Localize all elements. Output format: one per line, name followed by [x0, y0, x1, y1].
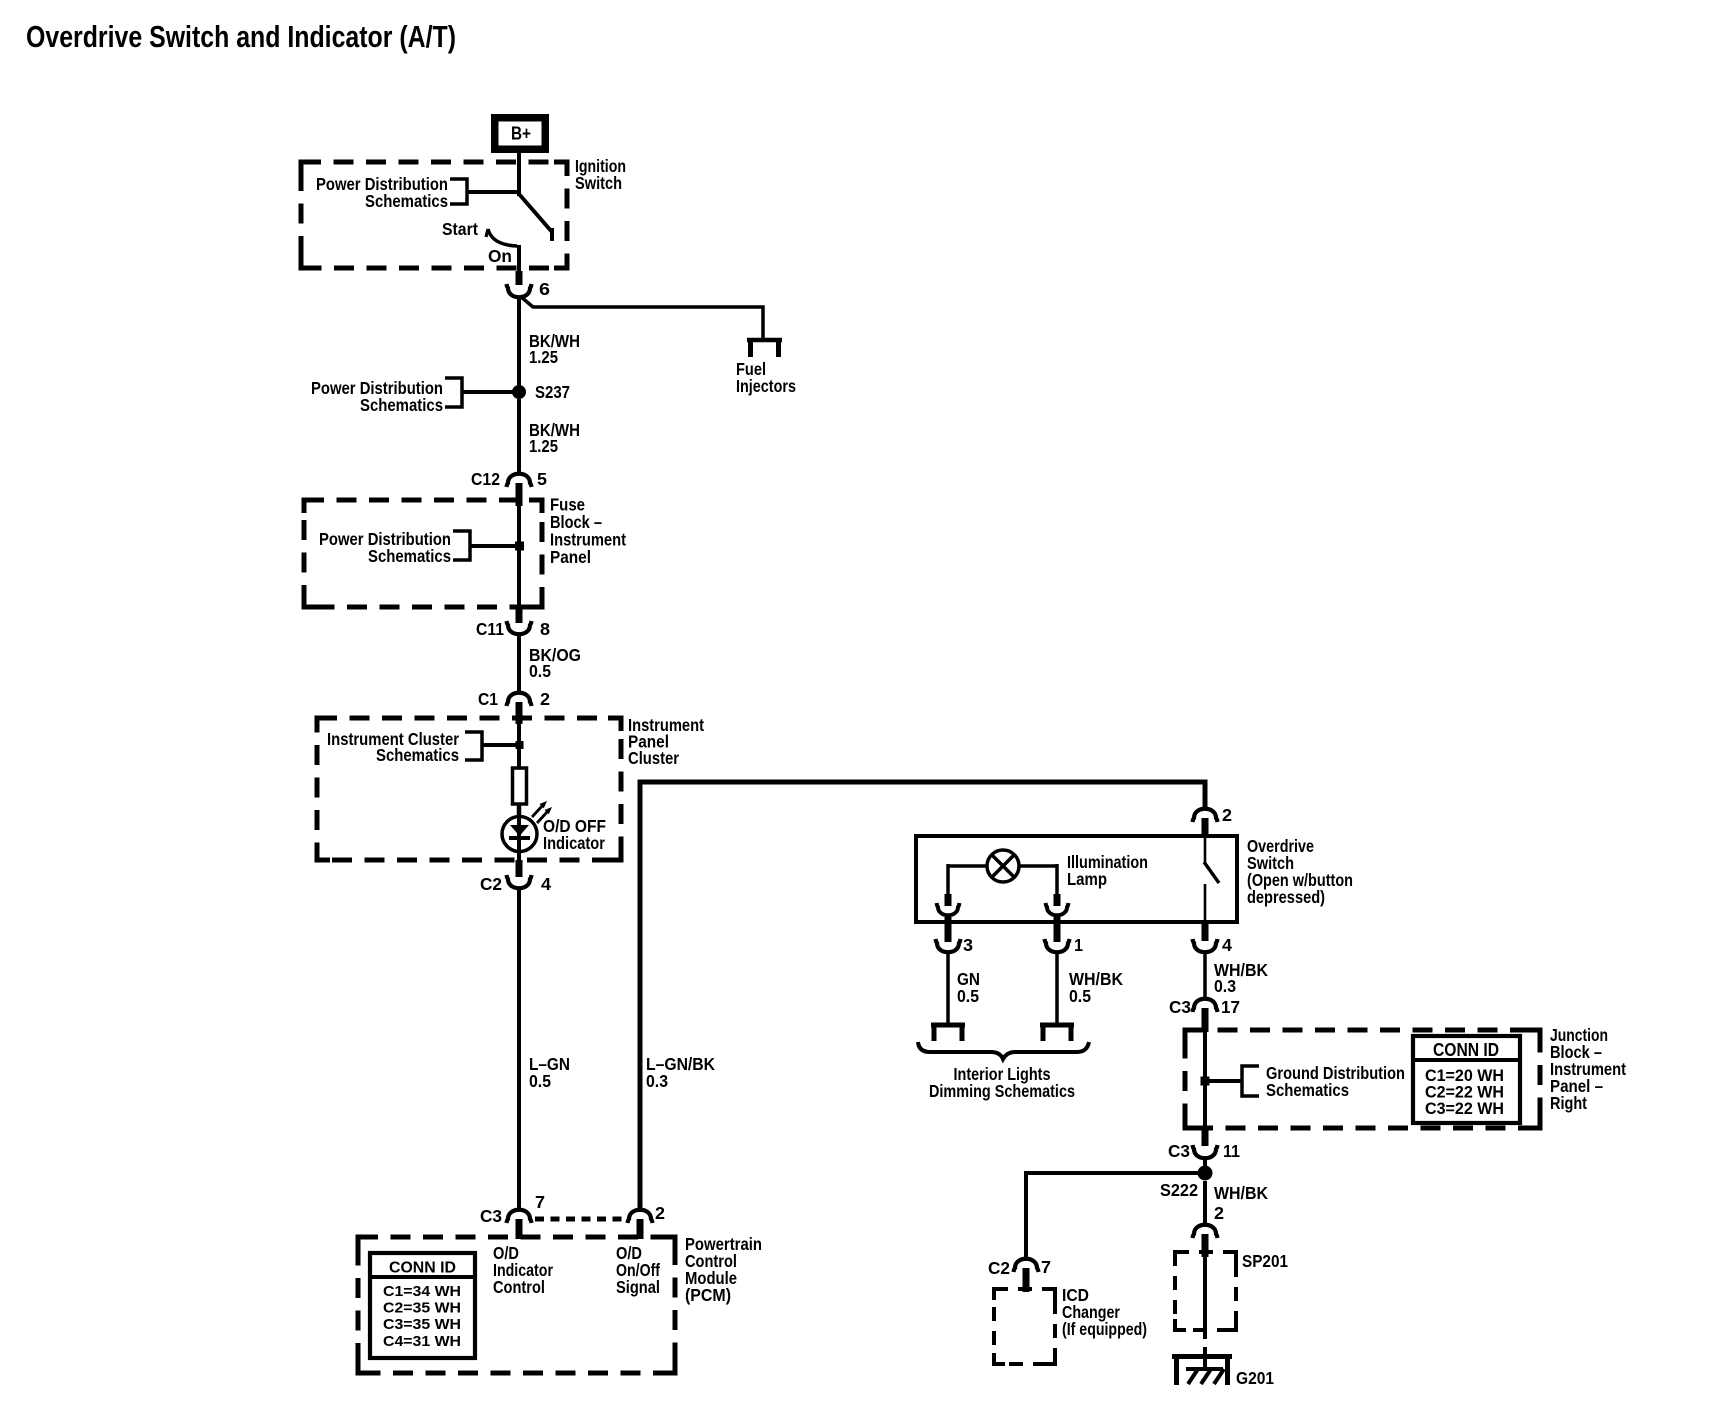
- svg-text:Control: Control: [493, 1277, 545, 1297]
- svg-text:Switch: Switch: [575, 173, 622, 193]
- stub C3/7 into PCM: [516, 1219, 523, 1239]
- ignition switch dashed box: [301, 162, 567, 268]
- svg-text:11: 11: [1223, 1141, 1240, 1161]
- svg-text:3: 3: [963, 935, 973, 955]
- svg-text:WH/BK: WH/BK: [1214, 1183, 1268, 1203]
- wire On contact to connector 6: [517, 245, 521, 273]
- svg-text:Schematics: Schematics: [368, 546, 451, 566]
- svg-text:Schematics: Schematics: [360, 395, 443, 415]
- svg-text:2: 2: [1222, 805, 1232, 825]
- interior lights terminal left: [931, 1023, 965, 1028]
- connector C11 pin 8: [507, 621, 532, 634]
- svg-text:0.3: 0.3: [1214, 976, 1236, 996]
- lamp left lead: [948, 864, 987, 868]
- svg-text:0.5: 0.5: [957, 986, 979, 1006]
- stub C2/7 into ICD box: [1023, 1268, 1030, 1292]
- svg-text:0.3: 0.3: [646, 1071, 668, 1091]
- svg-text:depressed): depressed): [1247, 887, 1325, 907]
- stub pin2 into PCM: [637, 1219, 644, 1239]
- stub into SP201 box: [1202, 1234, 1209, 1257]
- stub switch through box: [1202, 922, 1209, 941]
- LED diode triangle: [510, 825, 529, 836]
- lamp left terminal connector: [937, 903, 960, 915]
- ICD changer dashed box: [994, 1289, 1055, 1364]
- connector pin 3: [936, 939, 961, 952]
- svg-text:C2: C2: [480, 874, 502, 894]
- connector C3 pin 17: [1193, 999, 1218, 1012]
- svg-text:1: 1: [1074, 935, 1083, 955]
- svg-text:0.5: 0.5: [1069, 986, 1091, 1006]
- svg-text:1.25: 1.25: [529, 347, 558, 367]
- svg-text:Schematics: Schematics: [1266, 1080, 1349, 1100]
- LED arrows: [532, 805, 543, 817]
- connector pin 4 (switch): [1193, 939, 1218, 952]
- svg-text:C2: C2: [988, 1258, 1010, 1278]
- wire through junction block: [1203, 1032, 1207, 1128]
- svg-text:C1=34 WH: C1=34 WH: [383, 1283, 461, 1300]
- svg-text:C11: C11: [476, 619, 504, 639]
- svg-text:C3=22 WH: C3=22 WH: [1425, 1099, 1504, 1118]
- svg-text:Cluster: Cluster: [628, 748, 679, 768]
- bracket to power distribution (ignition): [450, 179, 467, 204]
- fuel injectors terminal: [747, 338, 782, 343]
- wire B+ to ignition switch pivot: [517, 153, 521, 196]
- svg-text:1.25: 1.25: [529, 436, 558, 456]
- wire S237 to connector C12: [517, 399, 521, 473]
- svg-text:(PCM): (PCM): [685, 1285, 731, 1305]
- wire C11 to C1: [517, 634, 521, 692]
- svg-text:4: 4: [1222, 935, 1232, 955]
- ground G201 symbol: [1172, 1354, 1232, 1359]
- dashed wire between PCM pins: [535, 1217, 626, 1222]
- bracket ground distribution schematics: [1242, 1066, 1259, 1096]
- resistor (indicator): [513, 768, 527, 804]
- connector C2 pin 7 (ICD): [1014, 1259, 1039, 1272]
- connector pin 2 (overdrive switch): [1193, 809, 1218, 822]
- svg-text:17: 17: [1221, 997, 1240, 1017]
- svg-text:0.5: 0.5: [529, 1071, 551, 1091]
- battery B+ terminal box: [491, 114, 549, 153]
- svg-text:Start: Start: [442, 219, 478, 239]
- bracket to instrument cluster schematics: [465, 732, 482, 760]
- wire pin3 down: [946, 953, 950, 1023]
- splice S222: [1198, 1166, 1213, 1181]
- overdrive switch box: [916, 836, 1237, 922]
- connector pin 1: [1045, 939, 1070, 952]
- connector C1 pin 2: [507, 693, 532, 706]
- stub junction block to C3/11: [1202, 1128, 1209, 1146]
- svg-text:On: On: [488, 246, 512, 266]
- stub lamp left through box: [945, 917, 952, 942]
- svg-text:0.5: 0.5: [529, 661, 551, 681]
- svg-text:Signal: Signal: [616, 1277, 660, 1297]
- LED cathode bar: [509, 836, 530, 840]
- bracket to power distribution (S237): [445, 378, 462, 407]
- svg-text:C3=35 WH: C3=35 WH: [383, 1316, 461, 1333]
- stub lamp right through box: [1054, 917, 1061, 942]
- connector C12 pin 5: [507, 474, 532, 487]
- svg-text:8: 8: [540, 619, 550, 639]
- svg-text:Dimming Schematics: Dimming Schematics: [929, 1081, 1075, 1101]
- connector pin 2 (PCM): [628, 1210, 653, 1223]
- svg-text:C1: C1: [478, 689, 498, 709]
- junction dot in junction block: [1201, 1077, 1210, 1086]
- svg-text:S222: S222: [1160, 1180, 1198, 1200]
- svg-text:2: 2: [540, 689, 550, 709]
- svg-text:C3: C3: [480, 1206, 502, 1226]
- wire connector 6 to splice S237: [517, 298, 521, 390]
- svg-text:Overdrive Switch and Indicator: Overdrive Switch and Indicator (A/T): [26, 19, 456, 54]
- svg-text:Indicator: Indicator: [543, 833, 605, 853]
- svg-text:S237: S237: [535, 382, 570, 402]
- lamp right terminal connector: [1046, 903, 1069, 915]
- fuse block dashed box: [304, 500, 542, 607]
- svg-text:B+: B+: [511, 123, 531, 144]
- wire S222 to SP201: [1203, 1181, 1207, 1223]
- svg-text:C12: C12: [471, 469, 500, 489]
- svg-text:6: 6: [539, 279, 550, 299]
- interior lights terminal right: [1040, 1023, 1074, 1028]
- svg-text:2: 2: [655, 1203, 665, 1223]
- instrument panel cluster dashed box: [317, 718, 621, 860]
- svg-text:CONN ID: CONN ID: [389, 1260, 456, 1277]
- wire bracket to S237: [462, 390, 515, 394]
- interior lights brace: [918, 1042, 1089, 1059]
- svg-text:Right: Right: [1550, 1093, 1587, 1113]
- svg-text:G201: G201: [1236, 1368, 1274, 1388]
- junction dot in fuse block: [515, 542, 524, 551]
- svg-text:Schematics: Schematics: [376, 745, 459, 765]
- stub C3/17 into junction block: [1202, 1008, 1209, 1032]
- wire C3/11 to splice S222: [1203, 1158, 1207, 1173]
- SP201 dashed box: [1175, 1252, 1236, 1330]
- svg-text:C4=31 WH: C4=31 WH: [383, 1333, 461, 1350]
- junction dot in cluster: [516, 741, 524, 749]
- illumination lamp circle: [987, 850, 1019, 882]
- svg-text:Schematics: Schematics: [365, 191, 448, 211]
- wire to ground distribution bracket: [1209, 1079, 1242, 1083]
- wire S222 to ICD changer: [1026, 1173, 1205, 1257]
- stub fuse block to connector C11: [516, 607, 523, 623]
- lamp right lead: [1019, 864, 1057, 868]
- wire branch to fuel injectors: [520, 296, 763, 340]
- svg-text:(If equipped): (If equipped): [1062, 1319, 1147, 1339]
- svg-text:SP201: SP201: [1242, 1251, 1288, 1271]
- stub pin2 into overdrive switch: [1202, 818, 1209, 838]
- svg-text:2: 2: [1214, 1203, 1224, 1223]
- svg-text:5: 5: [537, 469, 547, 489]
- wire resistor to LED: [517, 804, 522, 818]
- O/D OFF indicator LED circle: [502, 817, 537, 852]
- LED vertical wire through circle: [517, 818, 521, 852]
- svg-text:C3: C3: [1168, 1141, 1190, 1161]
- svg-text:Panel: Panel: [550, 547, 591, 567]
- bracket to power distribution (fuse block): [453, 531, 470, 560]
- wire cluster to overdrive switch (horizontal): [640, 782, 1205, 1208]
- wire bracket to ignition switch pivot: [467, 190, 519, 194]
- switch travel arc Start to On: [488, 229, 517, 246]
- wire pin4 down to C3: [1203, 953, 1207, 997]
- wire LED to cluster box bottom: [517, 852, 521, 860]
- wire through SP201 box: [1203, 1257, 1207, 1339]
- connector SP201 top: [1193, 1225, 1218, 1238]
- svg-text:C2=35 WH: C2=35 WH: [383, 1300, 461, 1317]
- junction block CONN ID table: [1413, 1036, 1520, 1123]
- svg-text:Injectors: Injectors: [736, 376, 796, 396]
- connector C3 pin 11: [1193, 1145, 1218, 1158]
- connector C3 pin 7 (PCM): [507, 1210, 532, 1223]
- stub cluster to connector C2: [516, 860, 523, 877]
- connector C2 pin 4: [507, 875, 532, 888]
- svg-text:C3: C3: [1169, 997, 1191, 1017]
- splice S237: [512, 385, 526, 399]
- PCM CONN ID table: [370, 1253, 475, 1358]
- wire pin1 down: [1055, 953, 1059, 1023]
- wire through fuse block: [517, 505, 521, 607]
- overdrive switch blade (open): [1204, 838, 1207, 862]
- svg-text:CONN ID: CONN ID: [1433, 1040, 1499, 1060]
- svg-text:4: 4: [541, 874, 551, 894]
- svg-text:7: 7: [1041, 1257, 1051, 1277]
- connector 6 (ignition switch): [507, 284, 532, 297]
- junction block dashed box: [1185, 1030, 1540, 1128]
- svg-text:Lamp: Lamp: [1067, 869, 1107, 889]
- stub C12 into fuse block: [516, 483, 523, 506]
- wire bracket to fuse wire: [470, 544, 517, 548]
- svg-text:7: 7: [535, 1192, 545, 1212]
- PCM dashed box: [358, 1237, 675, 1373]
- ignition switch blade: [519, 194, 552, 232]
- wire bracket to cluster wire: [482, 743, 516, 747]
- stub C1 into instrument panel cluster: [516, 702, 523, 724]
- wire C2 to PCM connector C3: [517, 889, 521, 1208]
- wire C1 stub to resistor: [517, 724, 521, 770]
